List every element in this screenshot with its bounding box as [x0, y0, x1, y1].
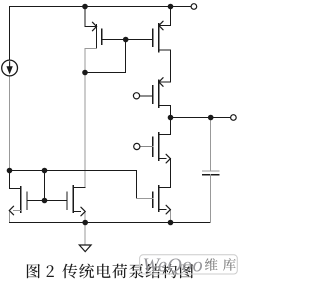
- caption char 2: [47, 265, 54, 277]
- transistor N2 (NMOS mirror output): leads: [73, 187, 85, 189]
- wire M1 source down to N2 drain: [84, 49, 86, 188]
- transistor M4 (NMOS switch DN): leads: [170, 118, 172, 135]
- arrow M2 (PMOS): [159, 21, 163, 30]
- ground symbol: [79, 245, 91, 252]
- terminal VDD (top right): [191, 4, 197, 10]
- caption char 结: [146, 264, 161, 279]
- arrow N1 (NMOS, points outward left): [9, 206, 13, 215]
- terminal DN input (M4 gate): [134, 143, 140, 149]
- caption char 图: [27, 264, 40, 278]
- wire M1 gate to M2 gate: [102, 39, 153, 41]
- capacitor C1 top lead: [210, 118, 212, 171]
- arrow M3 (PMOS): [159, 78, 163, 87]
- caption char 构: [162, 264, 177, 279]
- caption char 统: [79, 264, 94, 279]
- junction: output / capacitor tap: [208, 115, 214, 121]
- arrow M1 (PMOS, points into channel): [92, 22, 96, 31]
- transistor M1 (PMOS diode-connected): leads: [84, 7, 86, 27]
- wire UP input to M3 gate: [140, 95, 153, 97]
- arrow M4 (NMOS, points outward): [166, 154, 170, 163]
- caption char 荷: [112, 264, 127, 279]
- wire gate tie to bias rail: [44, 171, 46, 201]
- wire bias rail down to M5 gate: [136, 171, 138, 199]
- watermark rounded box: [140, 255, 238, 274]
- wire ground rail (bottom): [9, 222, 210, 224]
- wire down to ground symbol: [84, 223, 86, 245]
- caption char 图: [180, 264, 193, 278]
- caption char 泵: [129, 264, 144, 278]
- junction: M5 source / ground rail: [168, 220, 174, 226]
- wire VDD top rail: [10, 6, 191, 8]
- watermark char 库: [223, 258, 236, 271]
- transistor M2 (PMOS mirror): leads: [170, 7, 172, 26]
- caption char 电: [97, 264, 110, 278]
- terminal Vout (right): [231, 115, 237, 121]
- arrow M5 (NMOS): [166, 205, 170, 214]
- capacitor C1 plates: [203, 170, 219, 172]
- wire N1 gate to N2 gate: [27, 200, 67, 202]
- junction: M1 diode connection: [82, 70, 88, 76]
- transistor M5 (NMOS current sink): leads: [159, 187, 171, 189]
- junction: top rail / M1 drain: [82, 4, 88, 10]
- junction: ground tap: [82, 220, 88, 226]
- wire gate tie down: [125, 40, 127, 73]
- caption char 传: [62, 264, 77, 279]
- wire DN input to M4 gate: [140, 146, 153, 148]
- junction: bias rail / gate tie: [42, 168, 48, 174]
- transistor M3 (PMOS switch UP): leads: [159, 81, 170, 83]
- transistor N1 (NMOS mirror diode): leads: [9, 171, 11, 189]
- wire M2 source to M3 drain: [170, 50, 172, 82]
- arrow N2 (NMOS, points outward right): [81, 207, 85, 216]
- junction: PMOS gates tie: [123, 37, 129, 43]
- svg-text:WeQoo: WeQoo: [143, 255, 204, 277]
- wire output node: [171, 117, 231, 119]
- wire gate tie to M1 source (diode): [85, 72, 126, 74]
- wire M4 source to M5 drain: [170, 159, 172, 188]
- junction: top rail / M2 drain: [168, 4, 174, 10]
- junction: mirror gates tie: [42, 198, 48, 204]
- watermark char 维: [205, 258, 218, 271]
- capacitor C1 bottom lead: [210, 175, 212, 223]
- wire NMOS mirror bias rail: [10, 170, 137, 172]
- wire VDD down to current source: [9, 7, 11, 61]
- junction: output / M3 source / M4 drain: [168, 115, 174, 121]
- current source I1 (bias): [2, 60, 18, 76]
- terminal UP input (M3 gate): [133, 93, 139, 99]
- wire current source to bias rail: [9, 76, 11, 171]
- junction: bias rail / N1 drain: [7, 168, 13, 174]
- wire to M5 gate bar: [137, 198, 153, 200]
